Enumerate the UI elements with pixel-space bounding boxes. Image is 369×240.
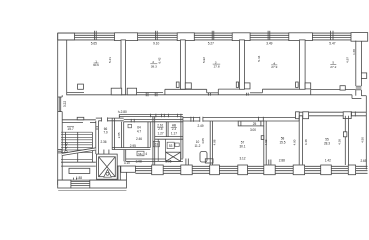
svg-text:4.98: 4.98 <box>213 139 217 145</box>
svg-text:25: 25 <box>253 122 257 126</box>
svg-text:4.40: 4.40 <box>65 142 69 148</box>
svg-text:27.8: 27.8 <box>214 65 220 69</box>
svg-text:3.49: 3.49 <box>266 42 272 46</box>
svg-text:4.48: 4.48 <box>304 139 308 145</box>
svg-text:38.3: 38.3 <box>151 64 157 68</box>
svg-text:2.95: 2.95 <box>130 144 136 148</box>
svg-text:2.49: 2.49 <box>197 124 203 128</box>
svg-text:1.27: 1.27 <box>158 132 164 136</box>
svg-text:27.2: 27.2 <box>330 65 336 69</box>
svg-text:1.42: 1.42 <box>325 159 331 163</box>
svg-text:5.21: 5.21 <box>108 57 112 63</box>
svg-text:53: 53 <box>169 144 173 148</box>
svg-text:1.17: 1.17 <box>171 132 177 136</box>
svg-text:2: 2 <box>152 60 154 64</box>
svg-text:2.88: 2.88 <box>279 159 285 163</box>
svg-text:5.44: 5.44 <box>257 55 261 61</box>
svg-text:30.1: 30.1 <box>239 144 245 148</box>
svg-text:2.85: 2.85 <box>117 132 121 138</box>
svg-text:6.42: 6.42 <box>158 57 162 63</box>
svg-text:27.9: 27.9 <box>271 65 277 69</box>
svg-text:1.88: 1.88 <box>76 176 82 180</box>
svg-text:4.90: 4.90 <box>293 139 297 145</box>
svg-text:5.65: 5.65 <box>91 41 97 45</box>
svg-text:4.60: 4.60 <box>264 139 268 145</box>
svg-text:3.22: 3.22 <box>63 101 67 107</box>
svg-text:7.0: 7.0 <box>103 130 108 134</box>
svg-text:2.46: 2.46 <box>136 137 142 141</box>
svg-text:9.10: 9.10 <box>153 42 159 46</box>
svg-text:4.38: 4.38 <box>338 139 342 145</box>
svg-text:63: 63 <box>155 143 159 147</box>
svg-text:15.5: 15.5 <box>279 141 285 145</box>
svg-text:3.00: 3.00 <box>250 128 256 132</box>
svg-text:5.47: 5.47 <box>329 42 335 46</box>
svg-text:1.68: 1.68 <box>352 49 356 55</box>
svg-text:МЦ: МЦ <box>138 152 142 156</box>
svg-text:2.65: 2.65 <box>360 159 366 163</box>
svg-text:3.12: 3.12 <box>239 156 245 160</box>
svg-text:4.7: 4.7 <box>137 129 142 133</box>
svg-text:5.92: 5.92 <box>202 57 206 63</box>
svg-text:3.10: 3.10 <box>124 161 130 165</box>
svg-text:4: 4 <box>145 152 147 156</box>
svg-text:2.36: 2.36 <box>100 140 106 144</box>
svg-text:h-2.80: h-2.80 <box>118 110 127 114</box>
svg-text:5.27: 5.27 <box>208 42 214 46</box>
svg-text:4.05: 4.05 <box>201 138 205 144</box>
svg-text:4.50: 4.50 <box>360 137 364 143</box>
svg-text:15.7: 15.7 <box>67 127 74 131</box>
svg-text:4.97: 4.97 <box>346 57 350 63</box>
svg-text:30.6: 30.6 <box>93 63 99 67</box>
svg-text:28.3: 28.3 <box>324 142 330 146</box>
svg-text:2.95: 2.95 <box>165 159 171 163</box>
svg-text:11.2: 11.2 <box>195 144 201 148</box>
svg-text:3.08: 3.08 <box>136 160 142 164</box>
